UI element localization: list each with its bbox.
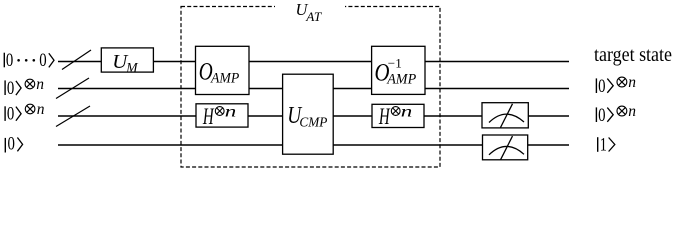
svg-text:H: H — [378, 104, 390, 129]
svg-text:0: 0 — [7, 79, 14, 99]
svg-text:AMP: AMP — [386, 71, 416, 87]
svg-text:AT: AT — [305, 10, 322, 24]
svg-text:1: 1 — [600, 136, 607, 156]
svg-text:n: n — [36, 76, 44, 93]
svg-text:n: n — [401, 104, 413, 121]
svg-text:n: n — [37, 101, 45, 118]
svg-text:0: 0 — [598, 106, 605, 126]
svg-text:0: 0 — [598, 77, 605, 97]
svg-text:0: 0 — [6, 51, 13, 71]
svg-text:H: H — [202, 104, 214, 129]
svg-text:n: n — [225, 104, 237, 121]
svg-text:0: 0 — [7, 105, 14, 125]
svg-text:n: n — [628, 74, 636, 91]
svg-text:CMP: CMP — [299, 116, 327, 131]
svg-text:−1: −1 — [388, 55, 402, 70]
svg-text:0: 0 — [8, 135, 15, 155]
svg-text:M: M — [125, 60, 138, 75]
svg-text:target state: target state — [594, 44, 672, 66]
svg-text:0: 0 — [39, 51, 46, 71]
svg-text:AMP: AMP — [210, 70, 239, 86]
svg-text:n: n — [628, 103, 636, 120]
